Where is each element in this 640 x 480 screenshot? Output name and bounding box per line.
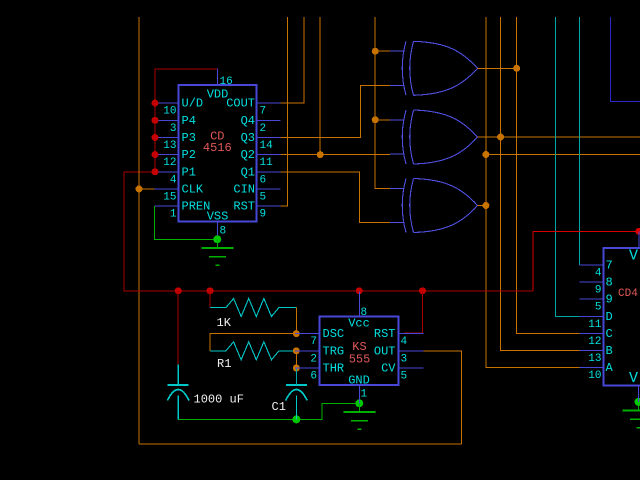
svg-text:5: 5	[260, 191, 267, 203]
svg-text:4: 4	[595, 268, 602, 280]
svg-text:2: 2	[310, 353, 317, 365]
svg-text:VSS: VSS	[207, 210, 229, 224]
svg-text:1: 1	[361, 389, 368, 401]
svg-text:12: 12	[163, 157, 176, 169]
svg-text:Q1: Q1	[241, 165, 255, 179]
svg-text:15: 15	[163, 191, 176, 203]
svg-text:5: 5	[401, 371, 408, 383]
svg-text:P1: P1	[182, 165, 196, 179]
svg-text:7: 7	[310, 336, 317, 348]
svg-text:9: 9	[260, 209, 267, 221]
svg-text:TRG: TRG	[323, 344, 345, 358]
svg-text:C: C	[606, 327, 613, 341]
svg-text:7: 7	[260, 106, 267, 118]
svg-text:OUT: OUT	[374, 344, 396, 358]
svg-text:6: 6	[260, 174, 267, 186]
svg-text:CD4: CD4	[618, 288, 638, 300]
svg-text:COUT: COUT	[226, 97, 255, 111]
svg-text:1K: 1K	[217, 316, 232, 330]
svg-text:6: 6	[310, 371, 317, 383]
svg-text:RST: RST	[374, 327, 396, 341]
svg-text:CIN: CIN	[233, 182, 255, 196]
svg-text:V: V	[629, 370, 638, 387]
svg-text:B: B	[606, 344, 613, 358]
svg-text:R1: R1	[217, 357, 231, 371]
svg-text:V: V	[629, 248, 638, 265]
svg-text:555: 555	[349, 353, 371, 367]
svg-text:CV: CV	[381, 362, 396, 376]
svg-text:12: 12	[588, 336, 601, 348]
svg-text:C1: C1	[272, 400, 286, 414]
svg-text:1: 1	[170, 209, 177, 221]
svg-text:D: D	[606, 310, 613, 324]
svg-text:13: 13	[588, 353, 601, 365]
svg-text:11: 11	[588, 319, 602, 331]
svg-text:14: 14	[260, 140, 274, 152]
svg-text:5: 5	[595, 302, 602, 314]
svg-text:9: 9	[595, 285, 602, 297]
svg-text:8: 8	[220, 226, 227, 238]
svg-text:8: 8	[606, 276, 613, 290]
svg-text:VDD: VDD	[207, 88, 229, 102]
svg-text:P3: P3	[182, 131, 196, 145]
svg-text:P2: P2	[182, 148, 196, 162]
svg-text:Q3: Q3	[241, 131, 255, 145]
svg-text:Q2: Q2	[241, 148, 255, 162]
svg-text:2: 2	[260, 123, 267, 135]
svg-text:Q4: Q4	[241, 114, 255, 128]
svg-text:10: 10	[163, 106, 176, 118]
svg-text:A: A	[606, 361, 614, 375]
svg-text:THR: THR	[323, 362, 345, 376]
svg-text:13: 13	[163, 140, 176, 152]
svg-text:RST: RST	[233, 200, 255, 214]
svg-text:1000 uF: 1000 uF	[194, 393, 244, 407]
svg-text:9: 9	[606, 293, 613, 307]
svg-text:GND: GND	[348, 374, 370, 388]
svg-text:CLK: CLK	[182, 182, 204, 196]
svg-text:4: 4	[170, 174, 177, 186]
svg-text:10: 10	[588, 370, 601, 382]
svg-text:4: 4	[401, 336, 408, 348]
svg-text:3: 3	[170, 123, 177, 135]
svg-text:11: 11	[260, 157, 274, 169]
svg-text:3: 3	[401, 353, 408, 365]
svg-text:4516: 4516	[203, 141, 232, 155]
svg-text:16: 16	[220, 76, 233, 88]
svg-text:7: 7	[606, 259, 613, 273]
svg-text:DSC: DSC	[323, 327, 345, 341]
svg-text:P4: P4	[182, 114, 196, 128]
svg-text:U/D: U/D	[182, 97, 204, 111]
svg-text:8: 8	[361, 307, 368, 319]
